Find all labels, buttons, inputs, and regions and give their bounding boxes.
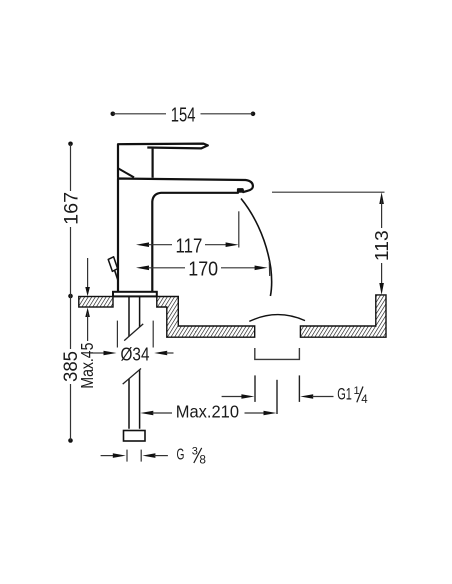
svg-text:117: 117 — [176, 236, 203, 258]
dimension Max.210 — [140, 402, 276, 422]
dimension 167 — [61, 142, 83, 299]
svg-text:Ø34: Ø34 — [121, 344, 150, 364]
svg-text:154: 154 — [171, 105, 196, 127]
pop-up rod stem — [115, 270, 119, 281]
svg-text:113: 113 — [371, 230, 392, 261]
counter right + step + sink bottom left (hatched) — [157, 297, 255, 338]
dimension 385 — [61, 296, 82, 443]
svg-text:Max.45: Max.45 — [77, 343, 97, 389]
drain center line — [276, 380, 278, 414]
svg-text:3: 3 — [192, 445, 198, 457]
supply shank left line — [128, 297, 130, 429]
drain dome arc — [249, 315, 305, 322]
dimension G1 1/4 — [222, 385, 369, 407]
dimension Ø34 extension left — [116, 321, 118, 348]
dimension Ø34 extension right — [152, 321, 154, 348]
dimension 113 — [371, 192, 392, 295]
faucet handle lever — [118, 144, 208, 178]
dimension 117 — [136, 211, 239, 257]
svg-text:Max.210: Max.210 — [176, 402, 239, 422]
supply shank right line — [139, 297, 141, 429]
svg-text:167: 167 — [61, 192, 83, 225]
svg-text:G: G — [177, 446, 185, 463]
counter left section (hatched) — [79, 297, 113, 308]
svg-text:8: 8 — [199, 453, 206, 467]
dimension 170 — [136, 259, 270, 281]
faucet body and spout outline — [118, 179, 253, 292]
pop-up rod knob — [108, 257, 117, 272]
spout aerator notch — [238, 189, 243, 193]
shank break slash lower — [123, 369, 141, 385]
sink bottom right + rim (hatched) — [300, 295, 386, 337]
base plate — [113, 292, 157, 297]
dimension 154 — [111, 105, 256, 127]
water stream arc — [241, 199, 272, 297]
dimension Max.45 — [77, 258, 97, 389]
svg-text:170: 170 — [188, 259, 218, 281]
drain pipe wall right — [298, 375, 300, 402]
svg-text:1: 1 — [354, 385, 360, 397]
handle base diagonal cut — [118, 168, 134, 177]
dimension Ø34 — [90, 344, 174, 364]
drain cup — [255, 348, 300, 359]
svg-text:4: 4 — [361, 394, 368, 406]
shank break slash upper — [124, 324, 143, 341]
G3/8 nut — [124, 431, 146, 442]
drain pipe wall left — [254, 375, 256, 402]
dimension G 3/8 — [101, 445, 207, 466]
dimension 113 extension line — [272, 191, 385, 193]
svg-text:G1: G1 — [337, 385, 352, 404]
